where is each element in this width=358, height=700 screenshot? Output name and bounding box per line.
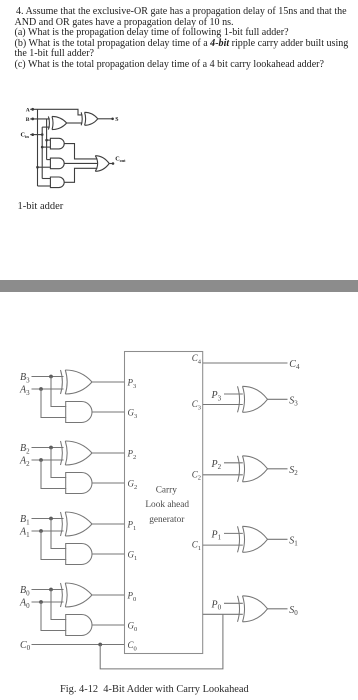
wire A to AND A2 lower input [38,166,51,168]
node A0 junction [39,600,43,604]
svg-text:S3: S3 [289,395,298,407]
node Cout terminal [112,162,115,165]
svg-text:Cout: Cout [115,156,126,164]
svg-text:C3: C3 [192,399,201,411]
wire S1 output [268,538,288,540]
svg-text:S1: S1 [289,535,298,547]
wire S output [98,118,112,120]
node B-AND1 junction [45,139,48,142]
svg-text:S: S [115,117,118,123]
node Cin terminal [31,133,34,136]
svg-text:B2: B2 [20,443,30,455]
wire B3 branch to AND upper input [51,377,66,407]
svg-text:G3: G3 [128,408,138,420]
svg-text:B3: B3 [20,372,30,384]
wire G3 to generator box [92,411,125,413]
wire C0 to generator box [32,644,125,646]
xor U1 (B xor Cin) [48,116,66,129]
svg-text:S2: S2 [289,465,298,477]
wire A3 out to OR bottom input [64,168,97,182]
wire P3 to sum XOR [224,393,243,395]
wire C0 feedback loop to S0 XOR [100,614,223,669]
svg-text:G2: G2 [128,479,138,491]
svg-text:A: A [26,107,30,113]
svg-text:P3: P3 [127,378,137,390]
xor gate P1 [61,512,93,536]
wire A branch riser [37,109,39,186]
wire C3 to sum XOR [203,404,243,406]
wire A2 branch to AND lower input [41,460,66,489]
carry lookahead generator box U1 [125,352,203,654]
wire B0 to XOR top input [32,589,64,591]
node B1 junction [49,517,53,521]
wire P2 to generator box [92,452,125,454]
wire Cin to AND A3 upper input [42,178,50,180]
node A terminal [31,108,34,111]
wire A1 out to OR top input [64,144,97,159]
svg-text:P1: P1 [211,529,222,541]
wire A2 to XOR bottom input [32,459,64,461]
svg-text:P0: P0 [127,591,137,603]
wire A3 branch to AND lower input [41,389,66,418]
xor gate S3 sum [238,386,268,412]
node B2 junction [49,446,53,450]
figure caption: 1-bit adder [18,201,64,212]
wire A to XOR U2 top input [30,109,82,115]
problem statement text [15,7,358,70]
svg-text:A1: A1 [19,527,30,539]
wire P1 to generator box [92,523,125,525]
node C0 junction [98,643,102,647]
and gate G2 [66,473,92,494]
wire P1 to sum XOR [224,532,243,534]
xor gate P2 [61,441,93,465]
svg-text:A3: A3 [19,385,30,397]
svg-text:P2: P2 [211,459,222,471]
wire C2 to sum XOR [203,474,243,476]
svg-text:C4: C4 [289,359,300,371]
svg-text:P2: P2 [127,449,137,461]
node B terminal [31,118,34,121]
wire B1 branch to AND upper input [51,519,66,549]
svg-text:S0: S0 [289,605,298,617]
node A2 junction [39,458,43,462]
wire A to AND A3 lower input [38,185,51,187]
svg-text:G0: G0 [128,621,138,633]
svg-text:B0: B0 [20,585,30,597]
wire A2 out to OR middle input [64,162,97,164]
node Cin-AND1 junction [41,146,44,149]
svg-text:A0: A0 [19,598,30,610]
wire S3 output [268,398,288,400]
wire A0 branch to AND lower input [41,602,66,631]
wire G1 to generator box [92,553,125,555]
gray divider band [0,280,358,291]
svg-text:Carry: Carry [156,486,178,496]
wire S2 output [268,468,288,470]
wire A0 to XOR bottom input [32,601,64,603]
svg-text:P1: P1 [127,520,137,532]
node A-AND2 junction [36,166,39,169]
svg-text:C0: C0 [128,640,137,652]
svg-text:C2: C2 [192,469,201,481]
wire P0 to generator box [92,594,125,596]
svg-text:C4: C4 [192,353,202,365]
wire G0 to generator box [92,624,125,626]
svg-text:B1: B1 [20,514,30,526]
wire B2 branch to AND upper input [51,448,66,478]
figure caption: Fig. 4-12 [60,684,249,695]
wire B2 to XOR top input [32,447,64,449]
wire B1 to XOR top input [32,518,64,520]
svg-text:Cin: Cin [21,132,30,140]
wire C4 output [203,362,288,364]
node Cin junction [41,133,44,136]
wire B0 branch to AND upper input [51,590,66,620]
and A2 (A·B) [50,158,64,169]
wire B to AND A2 upper input [47,159,51,161]
wire Cin to XOR U1 lower input [42,126,50,128]
wire B3 to XOR top input [32,376,64,378]
or O1 carry-out [95,156,109,172]
wire A1 to XOR bottom input [32,530,64,532]
and A3 (A·Cin) [50,177,64,188]
svg-text:P3: P3 [211,390,222,402]
svg-text:generator: generator [149,515,185,525]
xor gate S1 sum [238,526,268,552]
node A3 junction [39,387,43,391]
xor U2 sum [81,112,98,125]
wire carry-in C0 to sum XOR S0 [203,613,243,615]
wire A3 to XOR bottom input [32,388,64,390]
and gate G1 [66,544,92,565]
xor gate P0 [61,583,93,607]
wire B to AND A1 upper input [47,139,51,141]
wire A1 branch to AND lower input [41,531,66,560]
xor gate S0 sum [238,596,268,622]
svg-text:A2: A2 [19,456,30,468]
wire P3 to generator box [92,381,125,383]
node S terminal [111,118,114,121]
node B0 junction [49,588,53,592]
svg-text:C1: C1 [192,540,201,552]
xor gate P3 [61,370,93,394]
wire Cin from terminal [30,134,42,136]
and gate G3 [66,402,92,423]
svg-text:G1: G1 [128,550,138,562]
wire P2 to sum XOR [224,462,243,464]
wire U1 output to XOR U2 lower input [67,122,83,124]
xor gate S2 sum [238,456,268,482]
and gate G0 [66,615,92,636]
node B3 junction [49,375,53,379]
wire Cin to AND A1 lower input [42,146,50,148]
wire S0 output [268,608,288,610]
wire B to XOR U1 top input [30,118,50,120]
and A1 (B·Cin) [50,138,64,149]
wire B branch riser [46,119,48,160]
svg-text:P0: P0 [211,599,222,611]
wire Cout output [109,163,112,165]
wire G2 to generator box [92,482,125,484]
svg-text:C0: C0 [20,640,31,652]
svg-text:B: B [26,117,30,123]
node A1 junction [39,529,43,533]
svg-text:Look ahead: Look ahead [145,500,189,510]
wire Cin riser [41,127,43,178]
wire C1 to sum XOR [203,544,243,546]
wire P0 to sum XOR [224,602,243,604]
